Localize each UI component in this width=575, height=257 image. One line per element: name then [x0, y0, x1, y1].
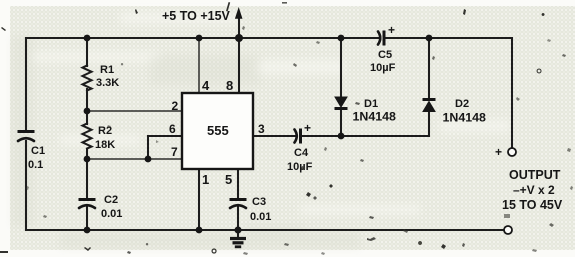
- C5 value label: [370, 49, 396, 74]
- wire C4 to D2 corner: [303, 135, 429, 137]
- svg-text:10µF: 10µF: [287, 161, 313, 173]
- C3 value label: [250, 196, 271, 223]
- svg-text:4: 4: [202, 78, 210, 93]
- wire pin 2: [87, 110, 182, 112]
- svg-text:0.1: 0.1: [28, 159, 43, 171]
- wire pin 6: [148, 135, 182, 137]
- node junction dot R2 C2: [84, 156, 91, 163]
- wire bottom rail: [26, 229, 504, 231]
- C2 value label: [101, 194, 122, 220]
- svg-text:1: 1: [202, 172, 209, 187]
- svg-text:+: +: [495, 145, 502, 159]
- svg-text:8: 8: [226, 78, 233, 93]
- wire pin 5 to C3: [237, 169, 239, 197]
- wire R2 bottom lead: [86, 150, 88, 159]
- svg-text:10µF: 10µF: [370, 62, 396, 74]
- svg-text:1N4148: 1N4148: [443, 111, 487, 125]
- wire C3 to ground rail: [237, 205, 239, 230]
- node junction dot ground rail: [235, 227, 242, 234]
- output label: [502, 168, 563, 212]
- output + terminal: [495, 145, 516, 159]
- wire D2 bottom lead: [428, 111, 430, 136]
- svg-text:+: +: [388, 23, 395, 37]
- svg-text:D1: D1: [364, 98, 378, 110]
- svg-text:7: 7: [171, 145, 178, 159]
- wire pin 3 to C4: [253, 135, 295, 137]
- op-amp U1 555 timer box: [182, 93, 253, 169]
- svg-text:3: 3: [258, 122, 265, 136]
- +V supply arrow: [235, 7, 243, 19]
- resistor R1: [83, 66, 92, 91]
- svg-text:C1: C1: [31, 145, 45, 157]
- node junction dot pin8 rail: [235, 34, 243, 42]
- svg-text:R1: R1: [100, 64, 114, 76]
- node junction dot pin4 rail: [196, 35, 203, 42]
- wire right drop to + output: [511, 38, 513, 148]
- svg-text:1N4148: 1N4148: [353, 110, 397, 124]
- svg-text:6: 6: [169, 122, 176, 136]
- svg-text:555: 555: [207, 123, 229, 138]
- D1 value label: [353, 98, 397, 124]
- svg-text:+5 TO +15V: +5 TO +15V: [162, 9, 231, 23]
- svg-text:18K: 18K: [95, 139, 115, 151]
- diode D1: [335, 97, 348, 109]
- node junction dot D1 top: [338, 35, 345, 42]
- svg-text:2: 2: [172, 99, 179, 113]
- wire C2 bottom lead: [86, 206, 88, 230]
- ground symbol: [230, 230, 246, 247]
- wire top rail left of C5: [26, 37, 378, 39]
- wire +V arrow shaft: [238, 15, 240, 38]
- svg-text:C5: C5: [378, 49, 392, 61]
- capacitor C5 polarized: [378, 23, 395, 46]
- svg-text:+: +: [304, 121, 311, 135]
- D2 value label: [443, 98, 487, 125]
- svg-text:0.01: 0.01: [101, 208, 122, 220]
- wire left vertical above C1: [25, 38, 27, 131]
- wire top rail right of C5: [386, 37, 512, 39]
- C1 value label: [28, 145, 45, 171]
- wire pin 8: [238, 38, 240, 93]
- svg-text:D2: D2: [455, 98, 469, 110]
- node junction dot D1 C4: [338, 133, 345, 140]
- node junction dots top rail R1: [84, 35, 91, 42]
- capacitor C2: [79, 200, 96, 209]
- capacitor C4 polarized: [295, 121, 312, 144]
- wire C2 top lead: [86, 159, 88, 198]
- svg-text:–+V x 2: –+V x 2: [513, 183, 555, 197]
- R1 value label: [96, 64, 119, 89]
- wire pin 4: [198, 38, 200, 93]
- svg-text:0.01: 0.01: [250, 211, 271, 223]
- diode D2: [423, 100, 436, 112]
- node junction dot C2 rail: [84, 227, 91, 234]
- wire left vertical below C1: [25, 141, 27, 230]
- wire D1 top lead: [340, 38, 342, 97]
- svg-text:C3: C3: [252, 196, 266, 208]
- svg-text:C4: C4: [294, 147, 309, 159]
- svg-text:3.3K: 3.3K: [96, 77, 119, 89]
- node junction dot D2 top: [426, 35, 433, 42]
- C4 value label: [287, 147, 313, 173]
- wire D2 top lead: [428, 38, 430, 99]
- wire R2 junction to pin 7: [87, 158, 182, 160]
- capacitor C1: [18, 132, 35, 142]
- wire junction vertical to pin 6: [147, 136, 149, 159]
- svg-text:OUTPUT: OUTPUT: [509, 168, 561, 182]
- output - terminal: [504, 226, 512, 234]
- wire R1 top lead: [86, 38, 88, 66]
- R2 value label: [95, 125, 115, 151]
- capacitor C3: [230, 200, 247, 209]
- node junction dot pin6 pin7: [145, 156, 152, 163]
- node junction dot pin1 rail: [196, 227, 203, 234]
- svg-text:15 TO 45V: 15 TO 45V: [502, 198, 563, 212]
- resistor R2: [83, 124, 92, 149]
- wire pin 1: [198, 169, 200, 230]
- svg-text:C2: C2: [104, 194, 118, 206]
- node junction dot R1 R2 pin2: [84, 108, 91, 115]
- wire R1-R2 junction segment: [86, 89, 88, 124]
- wire D1 bottom lead: [340, 108, 342, 136]
- svg-text:5: 5: [225, 172, 232, 187]
